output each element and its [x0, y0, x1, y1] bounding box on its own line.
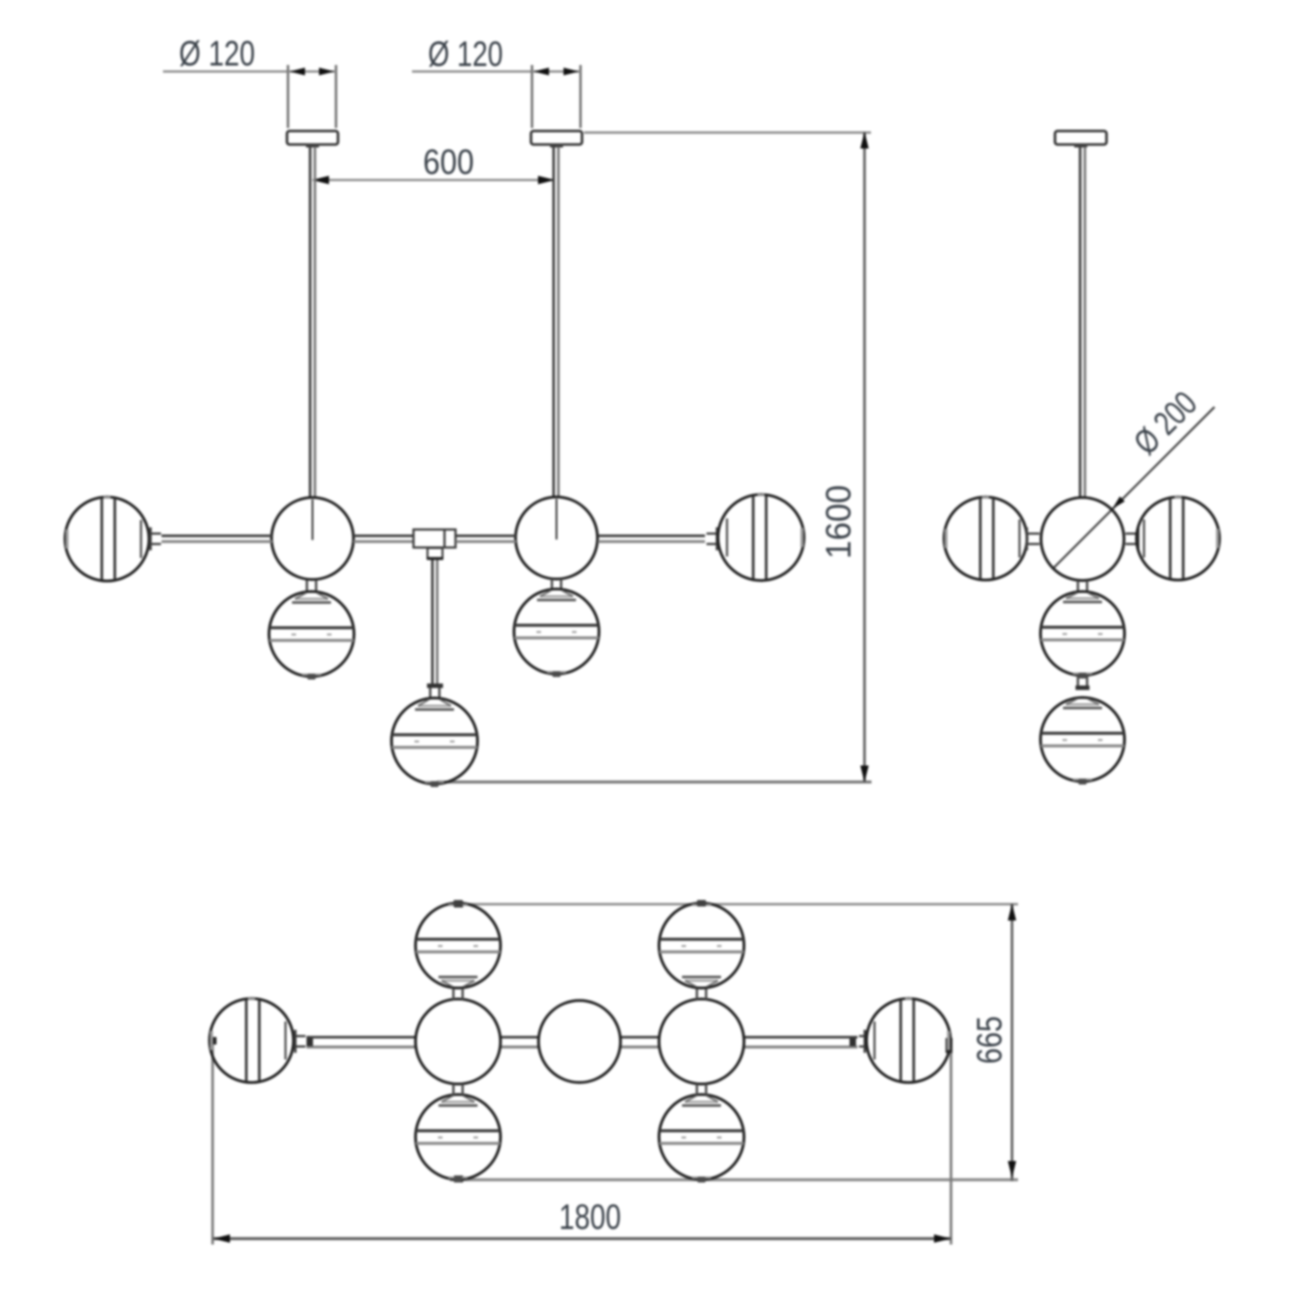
neck plan upper-right [697, 989, 706, 1000]
extension tick bottom [454, 1176, 463, 1183]
canopy front right [531, 131, 582, 148]
dimension text Ø200 [1127, 384, 1205, 462]
dimension line 1800 with arrows [213, 1234, 951, 1242]
end globe plan right [867, 999, 951, 1083]
diameter leader line Ø200 [1053, 407, 1214, 568]
connector plan left [295, 1030, 305, 1053]
bottom globe side view [1041, 698, 1125, 785]
neck below side centre globe [1078, 581, 1087, 592]
extension line left-canopy left [287, 65, 289, 128]
canopy side view [1055, 131, 1107, 148]
suspension rod front left [310, 147, 315, 498]
connector side right [1126, 527, 1139, 550]
end globe front left [65, 497, 149, 581]
dimension line 665 with arrows [1008, 904, 1016, 1182]
dimension line Ø120 right with arrows [532, 68, 581, 76]
dimension leader line Ø120 left [163, 70, 288, 72]
connector front right-end [707, 527, 718, 550]
arm segment front 1 [162, 536, 273, 542]
svg-text:1600: 1600 [820, 485, 859, 559]
centre drop rod [432, 560, 437, 684]
T-junction fitting [414, 530, 456, 559]
svg-text:1800: 1800 [559, 1198, 621, 1237]
connector front left-end [151, 527, 162, 550]
lower globe front right [514, 589, 599, 677]
neck below left globe [307, 580, 316, 592]
neck below right globe [552, 579, 561, 590]
arm segment plan 2 [501, 1037, 539, 1047]
dimension text 1800 [559, 1198, 621, 1237]
arm segment plan 4 [744, 1037, 857, 1047]
suspension rod front right [554, 147, 559, 498]
connector plan right [859, 1030, 865, 1053]
drop rod flange [427, 684, 443, 689]
globe body plan left [416, 999, 501, 1084]
extension tick top [454, 901, 463, 908]
end globe side left [944, 497, 1027, 580]
dimension text Ø120 right [428, 35, 503, 74]
arm segment front 3 [456, 536, 516, 542]
dimension line Ø120 left with arrows [288, 68, 336, 76]
arm segment plan 1 [307, 1037, 416, 1047]
extension line 1800 right [950, 1046, 953, 1245]
dimension text Ø120 left [179, 35, 255, 74]
extension line right-canopy left [531, 65, 533, 128]
dimension text 665 [971, 1016, 1010, 1064]
svg-text:Ø 120: Ø 120 [428, 35, 503, 74]
dimension line 1600 with arrows [860, 132, 868, 783]
arm segment front 2 [354, 536, 415, 542]
lower globe front left [269, 592, 354, 680]
neck above drop globe [430, 688, 439, 699]
end globe side right [1137, 497, 1220, 580]
lower neck flange side view [1076, 686, 1090, 691]
extension tick plan left [209, 1037, 217, 1045]
extension line 665 bottom [450, 1178, 1018, 1181]
lower globe plan right [659, 1095, 744, 1183]
arm segment plan 3 [620, 1037, 659, 1047]
drop globe front centre [392, 698, 478, 787]
end globe front right [718, 495, 804, 581]
globe body front left [272, 498, 354, 580]
globe body side centre [1041, 498, 1124, 581]
arm segment front 4 [598, 536, 705, 542]
arm joint ring plan right [850, 1038, 857, 1046]
dimension text 1600 [820, 485, 859, 559]
upper globe plan right [659, 900, 744, 988]
svg-text:665: 665 [971, 1016, 1010, 1064]
neck plan lower-left [453, 1084, 462, 1095]
canopy front left [287, 131, 338, 148]
extension tick plan right [946, 1038, 953, 1053]
upper globe plan left [416, 900, 501, 988]
globe body plan right [659, 999, 744, 1084]
dimension line 600 with arrows [312, 176, 555, 184]
extension line right-canopy right [579, 65, 581, 128]
extension line 1600 bottom [437, 781, 872, 784]
middle globe side view [1041, 592, 1125, 679]
end globe plan left [210, 999, 294, 1083]
svg-text:Ø 120: Ø 120 [179, 35, 255, 74]
neck below middle globe [1078, 676, 1087, 686]
extension line left-canopy right [335, 65, 337, 128]
svg-text:600: 600 [423, 143, 474, 182]
extension line 1600 top [584, 131, 871, 133]
connector side left [1027, 527, 1040, 550]
arm joint ring plan left [307, 1038, 314, 1046]
globe body front right [516, 497, 598, 579]
extension line 665 top [447, 903, 1018, 905]
extension line 1800 left [211, 1040, 214, 1245]
dimension leader line Ø120 right [412, 70, 532, 72]
neck plan lower-right [697, 1084, 706, 1095]
neck plan upper-left [453, 989, 462, 1000]
globe body plan centre [539, 1001, 621, 1083]
lower globe plan left [416, 1095, 501, 1183]
dimension text 600 [423, 143, 474, 182]
suspension rod side view [1080, 147, 1085, 498]
